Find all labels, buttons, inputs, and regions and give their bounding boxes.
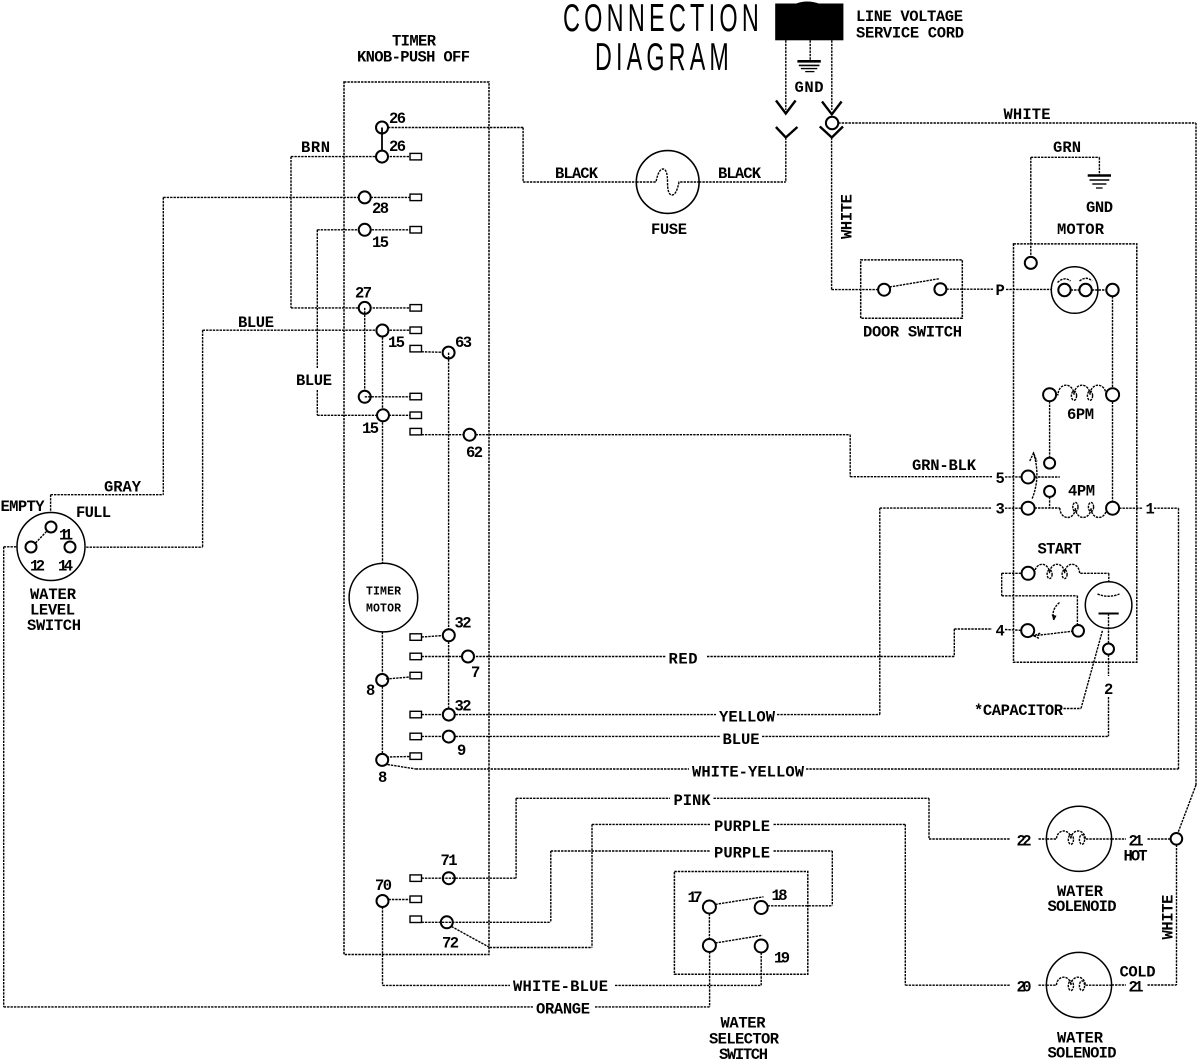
selector bar 17 pair [708, 914, 710, 940]
ground symbol right [1088, 176, 1111, 189]
wire GRN-BLK from 62 to 5 [476, 435, 1022, 477]
svg-text:8: 8 [378, 769, 387, 787]
svg-text:4: 4 [996, 623, 1005, 641]
wire WHITE-BLUE 70 to 19 [383, 907, 762, 985]
wire WHITE right drop to cold 21 [1176, 845, 1178, 985]
door switch box [861, 260, 963, 318]
wire 8 upper to notch [386, 677, 410, 679]
contact 27 pair lower [359, 391, 371, 403]
terminal notch 8 upper [410, 672, 422, 679]
wire notch to 63 [422, 351, 449, 354]
svg-text:SWITCH: SWITCH [719, 1046, 768, 1061]
svg-text:BLACK: BLACK [718, 165, 762, 183]
wire 3 to YELLOW riser [880, 508, 1022, 714]
svg-text:4PM: 4PM [1068, 483, 1095, 501]
wire 6PM left leg down [1049, 401, 1051, 457]
terminal notch 8 lower [410, 753, 422, 760]
svg-text:72: 72 [442, 935, 459, 953]
wire 15 upper [317, 229, 410, 231]
wire 4PM to node 1 [1119, 508, 1178, 769]
wire stub 4PM start [1049, 497, 1051, 508]
wire 21 hot to connector [1112, 838, 1171, 840]
contact 15 at blue wire [376, 325, 388, 337]
timer box [344, 82, 489, 955]
svg-text:11: 11 [59, 527, 73, 545]
svg-text:26: 26 [389, 110, 406, 128]
svg-text:BLACK: BLACK [555, 165, 599, 183]
svg-text:GND: GND [795, 79, 824, 97]
svg-text:8: 8 [366, 682, 375, 700]
wire PURPLE1 72 diagonal to cold solenoid 20 [452, 824, 1047, 985]
selector terminal 17 lower [703, 939, 716, 952]
svg-text:15: 15 [372, 234, 389, 252]
terminal notch 32 lower [410, 711, 422, 718]
svg-text:15: 15 [388, 334, 405, 352]
centrifugal switch contact lower [1044, 486, 1055, 497]
contact 8 upper [376, 674, 388, 686]
contact 32 lower [443, 709, 455, 721]
svg-text:GRN-BLK: GRN-BLK [912, 457, 977, 475]
terminal notch 32 upper [410, 634, 422, 641]
svg-text:FULL: FULL [76, 504, 111, 522]
contact 26 lower [376, 151, 388, 163]
water solenoid hot L1 [1046, 806, 1111, 871]
svg-text:SOLENOID: SOLENOID [1048, 1045, 1117, 1061]
terminal notch 27 [410, 305, 422, 312]
svg-text:71: 71 [441, 852, 458, 870]
wire WHITE to door switch [832, 138, 879, 290]
terminal notch 63 [410, 345, 422, 352]
selector arm 17-18 [715, 897, 763, 905]
fuse F1 [636, 151, 699, 214]
svg-text:ORANGE: ORANGE [536, 1001, 590, 1019]
svg-text:WHITE: WHITE [1004, 106, 1051, 124]
start switch arm [1034, 631, 1073, 638]
svg-text:*CAPACITOR: *CAPACITOR [974, 702, 1064, 720]
terminal notch 70 [410, 896, 422, 903]
selector terminal 19 [755, 940, 768, 953]
selector terminal 17 [703, 901, 716, 914]
svg-text:BRN: BRN [301, 139, 330, 157]
svg-text:MOTOR: MOTOR [1057, 221, 1105, 239]
wire GRN [1031, 157, 1100, 257]
svg-text:SOLENOID: SOLENOID [1048, 898, 1117, 916]
svg-text:21: 21 [1129, 979, 1144, 997]
svg-text:GRN: GRN [1053, 139, 1081, 157]
winding 6PM [1043, 385, 1119, 401]
svg-text:2: 2 [1104, 681, 1113, 699]
terminal notch 27 pair lower [410, 393, 422, 400]
motor box [1014, 244, 1137, 662]
water level switch S1 [17, 513, 85, 581]
plug left prong wire [776, 40, 798, 182]
contact 9 [443, 731, 455, 743]
svg-text:32: 32 [455, 615, 472, 633]
svg-text:HOT: HOT [1124, 848, 1148, 866]
wire RED from 7 to 4 [422, 629, 1022, 657]
wire start winding to capacitor top [1108, 573, 1110, 593]
bar 15-15-timer motor [382, 331, 384, 564]
svg-text:20: 20 [1017, 979, 1032, 997]
plug right prong wire [820, 40, 843, 137]
plug ground lead and ground symbol [797, 40, 820, 71]
contact 15 lower [377, 409, 389, 421]
terminal notch 26 [410, 153, 422, 160]
svg-text:62: 62 [466, 444, 483, 462]
svg-text:START: START [1038, 541, 1082, 559]
terminal notch 62 [410, 428, 422, 435]
contact 32 upper [443, 629, 455, 641]
terminal notch 72 [410, 916, 422, 923]
terminal notch 15 first [410, 227, 422, 234]
wire protector to windings [1112, 296, 1114, 502]
capacitor bottom terminal 2 [1103, 644, 1114, 655]
wire BRN 26 to 27 [291, 157, 410, 308]
wire PURPLE2 72 to 18 [422, 851, 833, 922]
title CONNECTION DIAGRAM [563, 0, 763, 79]
terminal notch 15 blue [410, 327, 422, 334]
motor GRN terminal [1025, 257, 1037, 269]
svg-text:15: 15 [362, 420, 379, 438]
svg-text:WHITE: WHITE [839, 194, 857, 239]
svg-text:32: 32 [455, 698, 472, 716]
svg-text:CONNECTION: CONNECTION [563, 0, 763, 40]
svg-text:14: 14 [58, 558, 73, 576]
terminal notch 7 [410, 653, 422, 660]
centrifugal switch arc near 5 [1030, 453, 1037, 499]
svg-text:28: 28 [372, 200, 389, 218]
svg-text:3: 3 [996, 501, 1005, 519]
svg-text:BLUE: BLUE [723, 731, 760, 749]
wire P door switch to motor [946, 288, 1058, 290]
contact 27 [359, 302, 371, 314]
svg-text:PURPLE: PURPLE [714, 845, 770, 863]
svg-text:GND: GND [1086, 199, 1113, 217]
svg-text:FUSE: FUSE [651, 221, 687, 239]
wire stub from 5 [1035, 476, 1060, 478]
winding START [1022, 564, 1109, 580]
svg-text:WHITE-YELLOW: WHITE-YELLOW [692, 764, 805, 782]
door switch terminals [878, 284, 890, 296]
wire 21 cold to white drop [1112, 984, 1177, 986]
wire start winding left to start switch [1002, 573, 1078, 625]
wire 63 to 32 contacts [448, 353, 450, 715]
svg-text:RED: RED [669, 651, 698, 669]
svg-text:18: 18 [772, 887, 788, 905]
motor protector U1 [1051, 267, 1106, 314]
terminal notch 9 [410, 733, 422, 740]
contact 8 lower [376, 754, 388, 766]
svg-text:TIMER: TIMER [366, 586, 401, 599]
bar 27 pair [364, 308, 366, 397]
wire WHITE-YELLOW 8 to node 1 [388, 765, 1179, 770]
svg-text:63: 63 [455, 334, 472, 352]
line voltage service cord plug body [775, 2, 843, 41]
svg-text:WHITE: WHITE [1160, 895, 1178, 940]
svg-text:26: 26 [389, 138, 406, 156]
contact 71 [443, 872, 455, 884]
svg-text:WHITE-BLUE: WHITE-BLUE [513, 978, 608, 996]
start switch hook [1052, 603, 1060, 621]
bar 26-26 [381, 128, 383, 157]
wire 2 down to BLUE [1108, 655, 1110, 737]
svg-text:EMPTY: EMPTY [1, 498, 46, 516]
label LINE VOLTAGE SERVICE CORD [856, 8, 964, 43]
water solenoid cold L2 [1046, 952, 1111, 1017]
timer motor M1 [349, 563, 418, 632]
svg-text:MOTOR: MOTOR [366, 603, 401, 616]
wire notch to 62 [422, 434, 476, 436]
start switch terminal 4 [1021, 624, 1034, 637]
svg-text:BLUE: BLUE [238, 314, 274, 332]
water selector switch box [674, 872, 807, 975]
wire 26 to fuse BLACK [388, 128, 636, 183]
wire 27 pair lower to notch [365, 396, 410, 398]
svg-text:DIAGRAM: DIAGRAM [595, 36, 733, 79]
svg-text:7: 7 [471, 664, 480, 682]
motor terminal 5 [1022, 471, 1035, 484]
svg-text:LINE VOLTAGE: LINE VOLTAGE [856, 8, 963, 26]
wire BLUE bar between 15 contacts [317, 230, 410, 415]
selector terminal 18 [755, 901, 768, 914]
start switch right contact [1072, 625, 1084, 637]
wire GRAY riser to 28 [51, 197, 410, 521]
svg-text:PURPLE: PURPLE [714, 818, 770, 836]
winding 4PM [1035, 502, 1120, 518]
terminal notch 71 [410, 875, 422, 882]
wire timer motor down through 8 contacts [381, 632, 383, 760]
svg-text:19: 19 [774, 950, 790, 968]
svg-text:9: 9 [457, 742, 466, 760]
svg-text:6PM: 6PM [1067, 406, 1094, 424]
svg-text:70: 70 [375, 877, 392, 895]
contact 62 [464, 429, 476, 441]
wire BLUE from water level to 15 [76, 330, 410, 547]
svg-text:1: 1 [1146, 501, 1155, 519]
contact 72 [441, 916, 453, 928]
svg-text:BLUE: BLUE [296, 372, 332, 390]
motor terminal 3 [1022, 502, 1035, 515]
contact 26 upper [376, 122, 388, 134]
svg-text:YELLOW: YELLOW [719, 709, 776, 727]
svg-text:SERVICE CORD: SERVICE CORD [856, 25, 964, 43]
contact 28 [359, 191, 371, 203]
door switch arm [890, 279, 940, 287]
svg-text:KNOB-PUSH OFF: KNOB-PUSH OFF [357, 49, 470, 67]
centrifugal switch contact upper [1044, 458, 1055, 469]
svg-text:DOOR SWITCH: DOOR SWITCH [863, 324, 962, 342]
label *CAPACITOR with leader [974, 631, 1103, 721]
terminal notch 15 lower [410, 412, 422, 419]
wire 70 to notch [389, 899, 411, 901]
svg-text:5: 5 [996, 470, 1005, 488]
capacitor C1 [1085, 582, 1132, 644]
wire WHITE top run [838, 123, 1196, 834]
wire notch to 32 upper [422, 636, 445, 638]
connector node 21 [1171, 833, 1183, 845]
wire PINK 71 to hot solenoid 22 [422, 798, 1047, 878]
motor terminal right of protector [1106, 284, 1118, 296]
svg-text:27: 27 [355, 285, 372, 303]
connector circle at right prong [826, 117, 838, 129]
svg-text:SWITCH: SWITCH [27, 617, 81, 635]
svg-text:GRAY: GRAY [104, 479, 142, 497]
svg-text:17: 17 [688, 889, 703, 907]
wire BLUE 9 to capacitor 2 [422, 735, 1109, 737]
contact 7 [462, 651, 474, 663]
contact 63 [443, 347, 455, 359]
svg-text:22: 22 [1017, 833, 1032, 851]
contact 70 [377, 895, 389, 907]
wire 8 lower to notch [387, 756, 411, 759]
wire ORANGE water level to 17 [4, 547, 710, 1007]
selector arm 17-19 [715, 935, 762, 943]
terminal notch 28 [410, 194, 422, 201]
contact 15 first [359, 224, 371, 236]
wire fuse to plug BLACK [699, 181, 786, 183]
wire YELLOW 32 to 3 riser [422, 714, 880, 716]
svg-text:PINK: PINK [674, 792, 712, 810]
svg-text:12: 12 [30, 558, 45, 576]
svg-text:P: P [996, 282, 1005, 300]
